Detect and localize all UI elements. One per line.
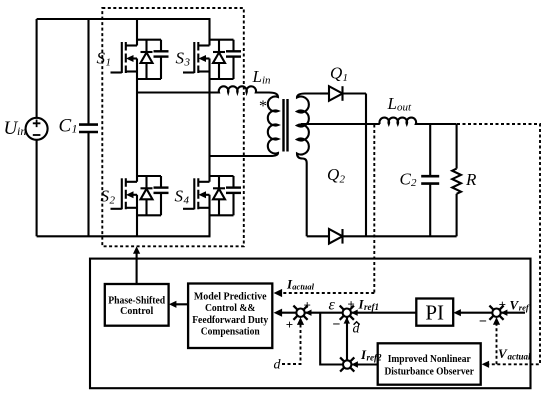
svg-text:V: V [498,346,508,361]
svg-text:Compensation: Compensation [201,327,260,338]
block Improved Nonlinear Disturbance Observer [378,343,481,384]
svg-text:C: C [59,115,72,136]
svg-text:2: 2 [340,174,346,186]
MOSFET S1 (with body diode and snubber capacitor) [111,40,169,79]
arrow PSC to bridge [136,249,138,284]
svg-text:Feedforward Duty: Feedforward Duty [192,315,268,326]
svg-text:Disturbance Observer: Disturbance Observer [384,367,474,378]
dashed current sense line [373,125,375,294]
dashed voltage sense line [457,124,540,364]
dashed bridge box [102,8,244,246]
summing junction j4 [340,357,354,371]
inductor Lin [137,86,269,92]
dashed Vactual branch to summer [496,319,498,365]
svg-text:L: L [387,94,397,113]
svg-text:Improved Nonlinear: Improved Nonlinear [388,354,472,365]
capacitor C2 [429,124,431,176]
wire j3 to PI [457,312,492,314]
dashed d input [282,319,301,364]
svg-text:actual: actual [292,281,314,291]
wire PI to j2 [351,312,416,314]
svg-text:Q: Q [327,165,339,184]
wire bottom bus [37,235,211,237]
svg-text:+: + [303,298,310,313]
wire branch T down [320,313,343,365]
svg-text:ε: ε [329,297,336,314]
transformer core [282,99,284,152]
svg-text:3: 3 [184,57,191,69]
wire top bus [37,18,211,20]
wire Q1-Q2 connector [365,94,367,237]
diode Q1 [320,92,329,94]
svg-text:in: in [262,75,271,87]
capacitor C1 [87,19,89,125]
arrow MPC to PSC [172,303,188,305]
svg-text:d: d [274,358,282,373]
wire secondary center tap [301,123,380,125]
svg-text:2: 2 [110,195,116,207]
wire left branch lower [36,140,38,237]
summing junction j3 [489,306,503,320]
svg-text:1: 1 [72,122,78,136]
block PI [416,299,453,326]
wire j2 to j1 [305,312,343,314]
MOSFET S2 (with body diode and snubber capacitor) [111,176,169,215]
svg-text:S: S [101,187,110,206]
svg-text:−: − [479,315,487,330]
wire observer to j4 [351,363,377,365]
svg-text:ref: ref [519,303,530,313]
wire j2 to j4 [346,317,348,360]
dashed Iactual feedback to MPC [277,292,374,294]
svg-text:out: out [397,102,412,114]
summing junction j2 [340,306,354,320]
wire left branch upper [36,19,38,118]
MOSFET S4 (with body diode and snubber capacitor) [183,176,241,215]
svg-text:in: in [17,124,26,138]
svg-text:+: + [347,297,354,312]
block Phase-Shifted Control [105,284,169,326]
svg-text:C: C [400,170,412,189]
wire Vref input [501,312,525,314]
svg-text:+: + [499,297,506,312]
diode Q2 [307,235,329,237]
transformer primary winding [210,93,279,157]
wire bridge leg A [136,19,138,236]
svg-text:S: S [176,49,185,68]
wire bridge leg B [208,19,210,236]
svg-text:S: S [97,49,106,68]
svg-text:Phase-Shifted: Phase-Shifted [108,295,165,306]
svg-text:*: * [259,98,267,115]
svg-text:ref1: ref1 [364,302,379,312]
svg-text:−: − [333,318,341,333]
svg-text:+: + [286,317,293,332]
inductor Lout [380,118,457,124]
svg-text:1: 1 [343,72,349,84]
MOSFET S3 (with body diode and snubber capacitor) [183,40,241,79]
resistor R [456,124,458,169]
control outer box [90,259,531,389]
svg-text:PI: PI [425,301,444,325]
svg-text:L: L [252,67,262,86]
svg-text:Control: Control [120,306,153,317]
svg-text:Q: Q [330,64,342,83]
svg-text:S: S [175,187,184,206]
wire output bottom rail [343,235,457,237]
summing junction j1 [293,306,307,320]
voltage source Uin [26,118,48,140]
svg-text:R: R [465,170,477,189]
transformer secondary winding [297,94,320,237]
svg-text:actual: actual [508,352,532,362]
wire j1 to MPC [277,312,296,314]
svg-text:Model Predictive: Model Predictive [194,292,267,303]
svg-text:ref2: ref2 [367,353,382,363]
svg-text:4: 4 [184,195,190,207]
block Model Predictive Control [188,284,272,349]
svg-text:2: 2 [411,177,417,189]
svg-text:Control &&: Control && [205,303,256,314]
svg-text:1: 1 [106,57,112,69]
